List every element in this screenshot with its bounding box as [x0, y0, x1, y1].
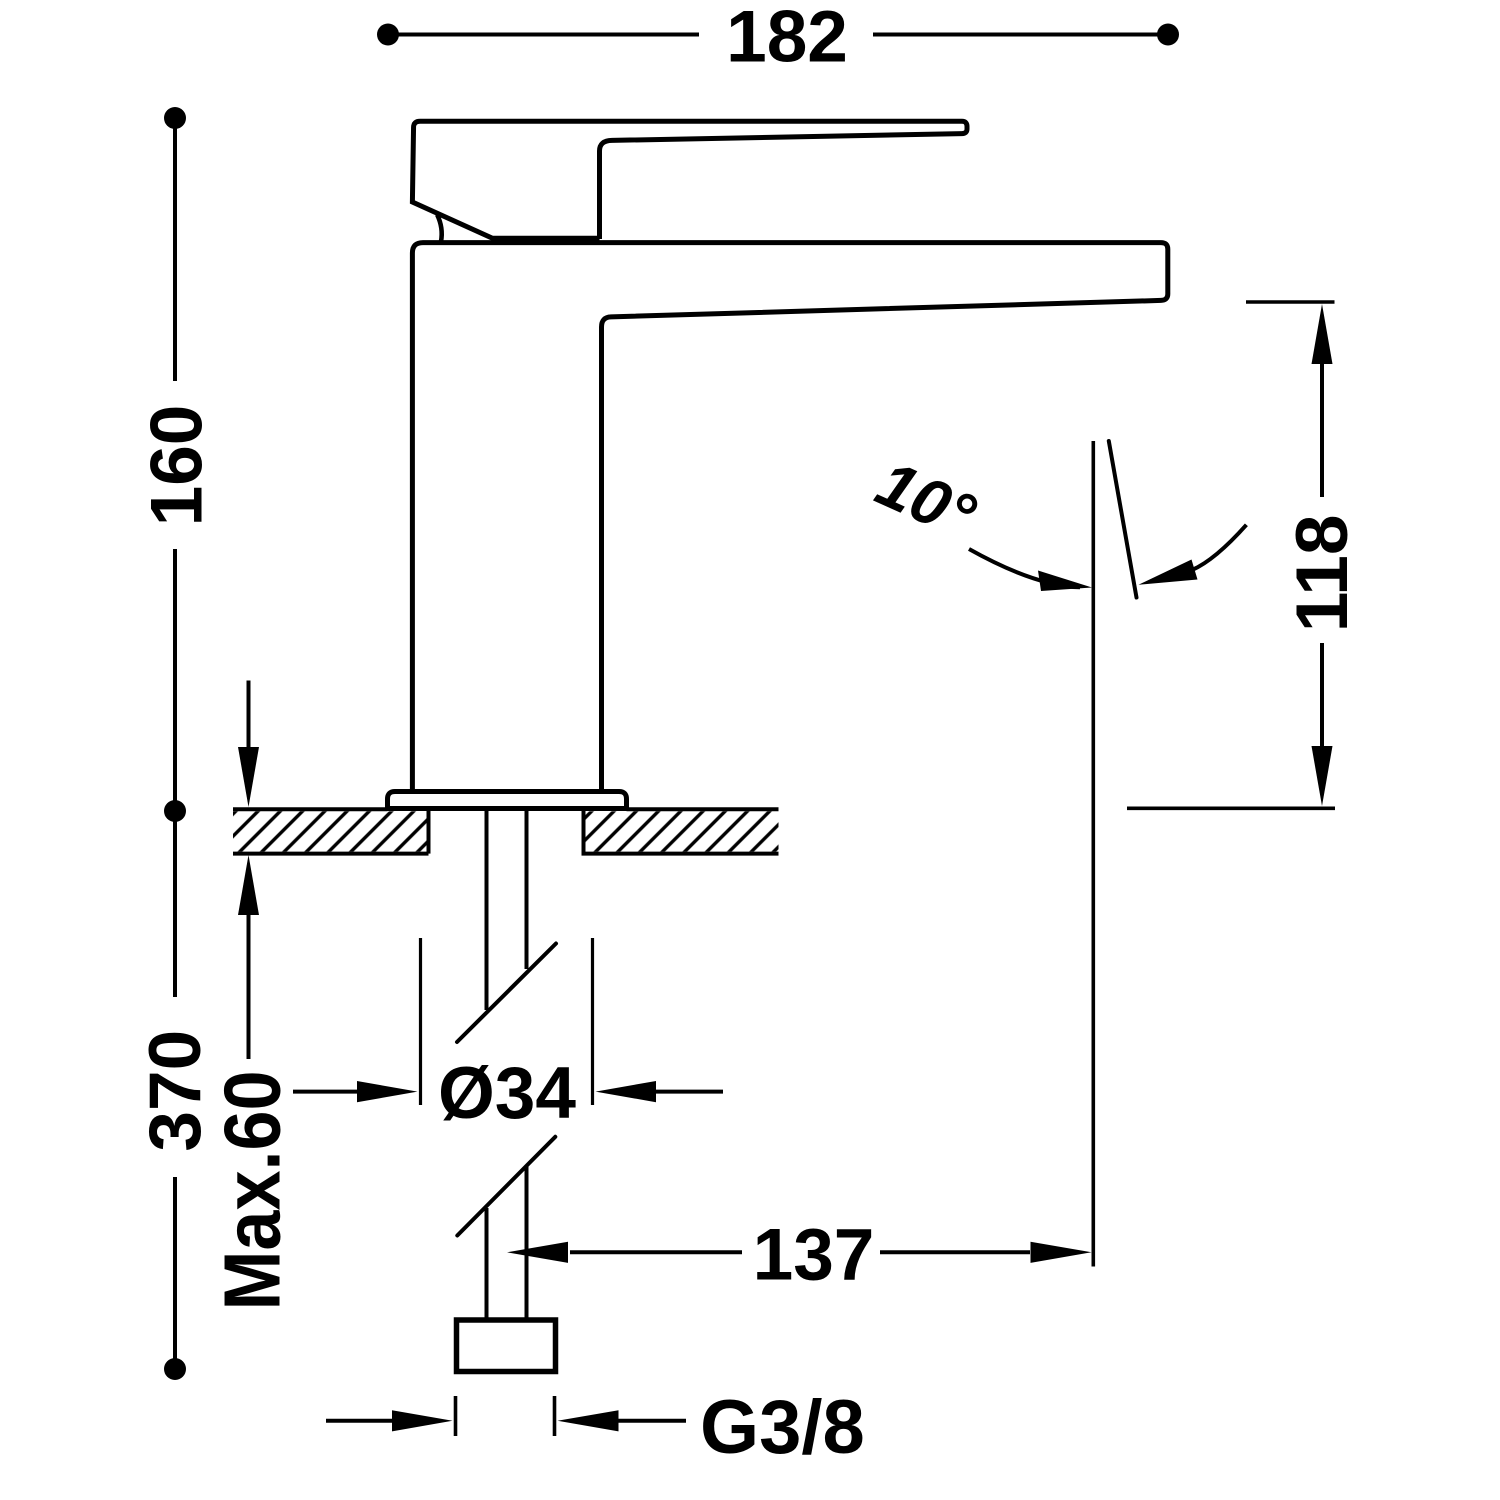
diameter 34 left arrow shaft: [293, 1090, 359, 1094]
supply pipe lower left line: [485, 1208, 489, 1320]
svg-text:160: 160: [137, 405, 218, 527]
Max.60 up arrow shaft: [247, 912, 251, 1059]
G3/8 right arrow shaft: [618, 1419, 686, 1423]
svg-text:118: 118: [1282, 515, 1363, 633]
svg-text:137: 137: [753, 1215, 875, 1296]
dimension 137 right shaft: [880, 1250, 1030, 1254]
diameter 34 right arrow shaft: [655, 1090, 723, 1094]
faucet body and spout outline: [412, 243, 1167, 792]
angle arc left arrowhead: [1038, 571, 1092, 592]
G3/8 left arrow shaft: [326, 1419, 394, 1423]
tilted spout axis line 10 degrees: [1109, 441, 1137, 598]
dimension 118 bottom tick at deck level: [1127, 806, 1335, 810]
countertop section hatch right block: [584, 811, 779, 851]
extension line left of diameter 34: [419, 938, 422, 1105]
pipe break slash lower: [457, 1137, 555, 1236]
angle arc left segment: [969, 549, 1080, 587]
handle pivot arc detail: [437, 215, 442, 242]
angle arc right segment: [1192, 525, 1246, 570]
countertop section hatch left block: [233, 811, 429, 851]
dimension 118 up arrowhead: [1312, 304, 1333, 364]
vertical reference line from spout: [1092, 441, 1096, 1267]
G3/8 extension tick left: [454, 1396, 458, 1436]
supply pipe lower right line: [525, 1167, 529, 1321]
dimension 118 upper shaft: [1320, 362, 1324, 497]
dot endpoint at deck level shared by 160 and 370: [164, 800, 186, 822]
supply pipe upper right line: [525, 808, 529, 969]
dimension 137 left arrowhead at pipe axis: [507, 1242, 568, 1263]
dimension line 182 left segment: [388, 33, 699, 37]
diameter 34 right arrowhead: [596, 1081, 657, 1102]
dimension 137 right arrowhead: [1031, 1242, 1092, 1263]
svg-text:Max.60: Max.60: [208, 1071, 297, 1311]
extension line right of diameter 34: [591, 938, 594, 1105]
countertop bottom line right: [582, 852, 779, 856]
dimension line 370 upper segment: [173, 811, 177, 997]
Max.60 down arrowhead: [238, 747, 259, 807]
countertop hole edge right: [582, 811, 586, 854]
handle lever outline: [412, 121, 967, 239]
dot endpoint left of dimension 182: [377, 24, 399, 46]
svg-text:370: 370: [135, 1030, 216, 1152]
countertop top surface line left: [233, 807, 388, 811]
G3/8 extension tick right: [553, 1396, 557, 1436]
dot endpoint top of dimension 160: [164, 107, 186, 129]
countertop bottom line left: [233, 852, 429, 856]
dimension 137 left shaft: [570, 1250, 742, 1254]
dimension 118 top tick at spout underside level: [1246, 300, 1335, 304]
Max.60 up arrowhead: [238, 855, 259, 915]
countertop hole edge left: [427, 811, 431, 854]
dot endpoint right of dimension 182: [1157, 24, 1179, 46]
dimension 118 lower shaft: [1320, 643, 1324, 746]
base plate escutcheon: [388, 792, 627, 809]
dot endpoint bottom of dimension 370: [164, 1358, 186, 1380]
G3/8 right arrowhead: [558, 1410, 619, 1431]
diameter 34 left arrowhead: [357, 1081, 418, 1102]
dimension line 370 lower segment: [173, 1177, 177, 1369]
supply pipe upper left line: [485, 808, 489, 1010]
dimension line 182 right segment: [873, 33, 1168, 37]
svg-text:182: 182: [726, 0, 848, 78]
dimension line 160 lower segment: [173, 549, 177, 811]
svg-text:Ø34: Ø34: [438, 1053, 576, 1134]
dimension line 160 upper segment: [173, 118, 177, 381]
Max.60 down arrow shaft: [247, 681, 251, 753]
pipe break slash upper: [457, 944, 556, 1043]
countertop top surface line right: [627, 807, 779, 811]
G3/8 left arrowhead: [392, 1410, 453, 1431]
connection nut: [457, 1320, 556, 1372]
dimension 118 down arrowhead: [1312, 746, 1333, 806]
angle arc right arrowhead: [1139, 560, 1198, 585]
svg-text:G3/8: G3/8: [700, 1385, 865, 1470]
